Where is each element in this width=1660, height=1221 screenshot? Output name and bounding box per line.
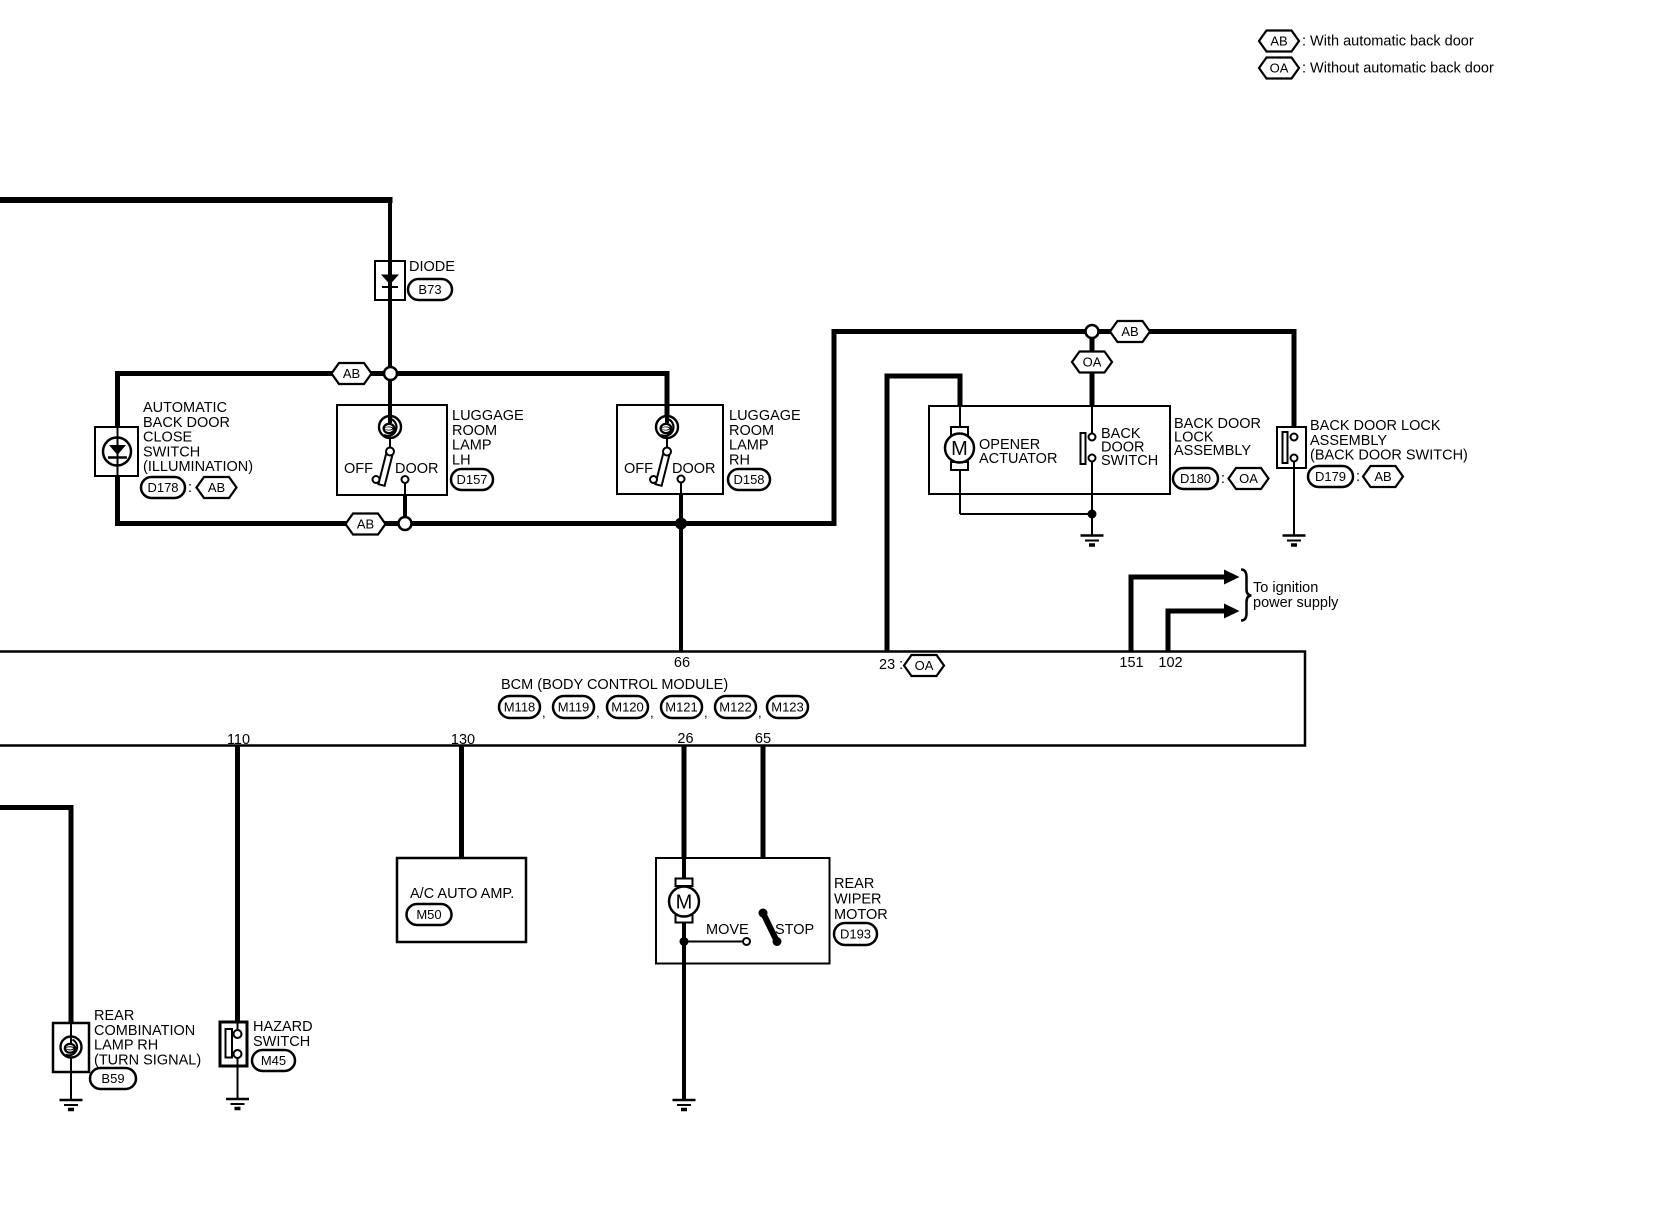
svg-text:LAMP: LAMP <box>729 438 769 454</box>
svg-text::: : <box>188 480 192 496</box>
svg-text:BACK DOOR: BACK DOOR <box>143 415 230 431</box>
brace to ignition power supply <box>1241 570 1252 621</box>
opener internal wires <box>960 406 1092 536</box>
svg-text:OFF: OFF <box>344 461 373 477</box>
svg-text:REAR: REAR <box>834 876 874 892</box>
D178 internal wire <box>117 427 119 476</box>
svg-text:66: 66 <box>674 655 690 671</box>
svg-text:110: 110 <box>227 732 250 748</box>
svg-text:STOP: STOP <box>775 922 814 938</box>
svg-text:ASSEMBLY: ASSEMBLY <box>1310 433 1387 449</box>
bulb lamp LH <box>379 416 401 438</box>
AB hexagon on bottom loop <box>346 514 386 535</box>
svg-text:M: M <box>951 438 968 460</box>
wire: top feed horizontal <box>0 197 393 203</box>
wire: upper loop horizontal with corner down to lamp RH <box>115 374 667 418</box>
wire: wiper ground stem <box>682 942 686 1101</box>
BCM box <box>0 652 1305 746</box>
label LUGGAGE ROOM LAMP LH <box>452 408 524 468</box>
D178 AB hexagon <box>197 477 237 498</box>
wire: right riser up and across to D179 <box>834 332 1297 527</box>
move contact <box>743 938 750 945</box>
wire: D179 drop <box>1292 329 1297 427</box>
contact OFF RH <box>650 476 657 483</box>
diode box B73 <box>375 261 405 300</box>
svg-text:DOOR: DOOR <box>672 461 716 477</box>
svg-text:(ILLUMINATION): (ILLUMINATION) <box>143 459 253 475</box>
label BACK DOOR LOCK ASSEMBLY (BACK DOOR SWITCH) <box>1310 418 1468 464</box>
svg-text:HAZARD: HAZARD <box>253 1019 313 1035</box>
svg-text:D157: D157 <box>456 472 487 487</box>
svg-text:DOOR: DOOR <box>395 461 439 477</box>
svg-text:LUGGAGE: LUGGAGE <box>452 408 524 424</box>
svg-text:BCM (BODY CONTROL MODULE): BCM (BODY CONTROL MODULE) <box>501 677 728 693</box>
back door lock assembly switch box D179 <box>1277 427 1306 468</box>
contact OFF LH <box>373 476 380 483</box>
junction circle on bottom loop <box>399 517 412 530</box>
svg-text:REAR: REAR <box>94 1008 134 1024</box>
svg-text:ASSEMBLY: ASSEMBLY <box>1174 443 1251 459</box>
wire: OA branch down to opener box <box>1090 332 1095 407</box>
D180 OA hexagon <box>1229 468 1269 489</box>
svg-text:M119: M119 <box>558 700 590 715</box>
svg-text:M121: M121 <box>665 700 698 715</box>
svg-text:OFF: OFF <box>624 461 653 477</box>
OA hexagon on opener branch <box>1072 352 1112 373</box>
svg-text:WIPER: WIPER <box>834 891 882 907</box>
wire: bottom loop horizontal <box>115 521 837 526</box>
svg-text:151: 151 <box>1119 655 1143 671</box>
label BACK DOOR LOCK ASSEMBLY (D180) <box>1174 416 1261 459</box>
D179 internals <box>1283 432 1298 536</box>
rear combination lamp box B59 <box>53 1023 89 1072</box>
wire: left turn signal feed <box>0 808 71 1024</box>
legend AB hexagon <box>1259 31 1299 52</box>
wire: left loop vertical through D178 <box>115 371 120 526</box>
diode symbol <box>381 275 399 288</box>
wire: BCM pin 23 riser and motor feed <box>887 376 960 652</box>
connectors M118-M123 <box>499 696 808 720</box>
switch pivot RH <box>663 448 671 456</box>
svg-text:RH: RH <box>729 452 750 468</box>
B59 internal wire <box>70 1023 72 1100</box>
svg-text:(BACK DOOR SWITCH): (BACK DOOR SWITCH) <box>1310 448 1468 464</box>
svg-text:AB: AB <box>357 517 374 532</box>
svg-text:,: , <box>758 705 762 720</box>
svg-text:B73: B73 <box>418 282 441 297</box>
svg-text:,: , <box>650 705 654 720</box>
svg-text:,: , <box>596 705 600 720</box>
junction on upper loop <box>384 367 397 380</box>
svg-text:M120: M120 <box>611 700 644 715</box>
D178 LED symbol <box>103 438 131 466</box>
svg-text:M45: M45 <box>261 1053 286 1068</box>
svg-text:AB: AB <box>208 480 225 495</box>
automatic back door close switch box D178 <box>95 427 138 476</box>
wire: wiper motor to ground junction <box>682 922 686 946</box>
ground: opener actuator <box>1081 536 1104 546</box>
connector D178 <box>141 477 192 498</box>
connector M45 <box>252 1050 295 1071</box>
pin 23 label and OA hexagon <box>879 655 944 676</box>
label AUTOMATIC BACK DOOR CLOSE SWITCH (ILLUMINATION) <box>143 400 253 475</box>
ground: rear combination lamp <box>60 1100 83 1110</box>
switch pivot LH <box>386 448 394 456</box>
svg-text:power supply: power supply <box>1253 595 1339 611</box>
svg-text:D179: D179 <box>1315 469 1346 484</box>
svg-text:65: 65 <box>755 731 771 747</box>
D179 AB hexagon <box>1363 466 1403 487</box>
svg-text:ROOM: ROOM <box>729 423 774 439</box>
svg-text:SWITCH: SWITCH <box>253 1034 310 1050</box>
wire: lamp LH DOOR stem <box>404 483 406 496</box>
svg-text:A/C AUTO AMP.: A/C AUTO AMP. <box>410 886 514 902</box>
svg-text:M50: M50 <box>416 907 441 922</box>
hazard switch box M45 <box>220 1022 247 1066</box>
connector D179 <box>1308 466 1360 487</box>
wire: pin 102 to ignition arrow <box>1168 611 1226 652</box>
arrowhead lower ignition <box>1224 604 1240 619</box>
contact DOOR LH <box>402 476 409 483</box>
label LUGGAGE ROOM LAMP RH <box>729 408 801 468</box>
connector B59 <box>90 1068 136 1089</box>
ground: rear wiper motor <box>673 1100 696 1110</box>
wire: pin 151 to ignition arrow <box>1131 577 1226 652</box>
junction dot lamp RH to BCM <box>675 518 687 530</box>
arrowhead upper ignition <box>1224 570 1240 585</box>
svg-text:D180: D180 <box>1180 471 1211 486</box>
hazard internals <box>226 1022 242 1099</box>
label To ignition power supply <box>1253 580 1339 611</box>
svg-text:LAMP RH: LAMP RH <box>94 1038 158 1054</box>
wire: pin 130 to A/C amp <box>459 746 464 858</box>
svg-text:LH: LH <box>452 452 471 468</box>
svg-text:D193: D193 <box>840 927 871 942</box>
svg-text:CLOSE: CLOSE <box>143 430 192 446</box>
svg-text:M: M <box>676 892 693 914</box>
wire: move contact line <box>684 941 743 943</box>
contact DOOR RH <box>678 476 685 483</box>
svg-text:,: , <box>704 705 708 720</box>
svg-text:OA: OA <box>1083 355 1102 370</box>
opener actuator box D180 <box>929 406 1170 494</box>
svg-text:ROOM: ROOM <box>452 423 497 439</box>
connector D193 <box>834 923 877 945</box>
connector D158 <box>728 469 770 490</box>
label REAR WIPER MOTOR <box>834 876 888 923</box>
AB hexagon top right <box>1110 321 1150 342</box>
connector D180 <box>1173 468 1225 489</box>
back door switch in opener box <box>1081 433 1096 464</box>
wire: RH bulb to switch pivot <box>666 438 668 448</box>
wire: pin 65 to wiper stop lever <box>761 746 766 909</box>
svg-text:102: 102 <box>1158 655 1182 671</box>
label BACK DOOR SWITCH <box>1101 426 1158 469</box>
A/C auto amp box M50 <box>397 858 526 942</box>
lamp LH internals <box>344 416 439 486</box>
svg-text:130: 130 <box>451 732 475 748</box>
wire: LH bulb to switch pivot <box>389 438 391 448</box>
label REAR COMBINATION LAMP RH (TURN SIGNAL) <box>94 1008 201 1068</box>
svg-text:AB: AB <box>1270 34 1287 49</box>
connector M50 <box>407 904 452 925</box>
lamp LH box D157 <box>337 405 447 495</box>
svg-text:M118: M118 <box>504 700 536 715</box>
lamp RH internals <box>624 416 716 486</box>
svg-text:SWITCH: SWITCH <box>1101 453 1158 469</box>
wire: pin 110 to hazard switch <box>235 746 240 1022</box>
svg-text:D178: D178 <box>147 480 178 495</box>
svg-text:B59: B59 <box>101 1071 124 1086</box>
wire: junction down to lamp LH bulb <box>388 374 392 418</box>
opener actuator motor M <box>945 427 974 470</box>
svg-text:AUTOMATIC: AUTOMATIC <box>143 400 227 416</box>
switch lever RH <box>655 451 670 486</box>
svg-text:OA: OA <box>915 658 934 673</box>
junction dot opener ground <box>1088 510 1097 519</box>
rear wiper motor box D193 <box>656 858 830 964</box>
svg-text:COMBINATION: COMBINATION <box>94 1023 195 1039</box>
junction on right riser wire <box>1086 325 1099 338</box>
svg-text::: : <box>1221 471 1225 487</box>
svg-text:LAMP: LAMP <box>452 438 492 454</box>
svg-text:BACK DOOR LOCK: BACK DOOR LOCK <box>1310 418 1441 434</box>
svg-text:SWITCH: SWITCH <box>143 444 200 460</box>
wire: top feed vertical through diode to junction <box>388 198 392 374</box>
svg-text:MOTOR: MOTOR <box>834 907 888 923</box>
B59 bulb <box>61 1037 82 1058</box>
connector D157 <box>451 469 493 490</box>
wire: pin 26 to wiper motor <box>682 746 687 877</box>
svg-text:: With automatic back door: : With automatic back door <box>1302 34 1474 50</box>
bulb lamp RH <box>656 416 678 438</box>
svg-text:,: , <box>542 705 546 720</box>
svg-text:AB: AB <box>1121 324 1138 339</box>
svg-text:MOVE: MOVE <box>706 922 749 938</box>
svg-text:To ignition: To ignition <box>1253 580 1318 596</box>
svg-text:23 :: 23 : <box>879 657 903 673</box>
svg-text:(TURN SIGNAL): (TURN SIGNAL) <box>94 1052 201 1068</box>
svg-text:M123: M123 <box>771 700 804 715</box>
ground: back door lock assembly <box>1283 536 1306 546</box>
label OPENER ACTUATOR <box>979 437 1057 467</box>
svg-text:26: 26 <box>677 731 693 747</box>
svg-text:: Without automatic back door: : Without automatic back door <box>1302 61 1494 77</box>
svg-text:OA: OA <box>1270 61 1289 76</box>
wiper motor M <box>669 858 699 923</box>
stop lever <box>759 909 782 947</box>
ground: hazard switch <box>226 1099 249 1109</box>
label HAZARD SWITCH <box>253 1019 313 1050</box>
svg-text:AB: AB <box>1374 469 1391 484</box>
svg-text:ACTUATOR: ACTUATOR <box>979 451 1057 467</box>
svg-text:M122: M122 <box>719 700 752 715</box>
switch lever LH <box>378 451 393 486</box>
junction dot wiper ground <box>680 937 689 946</box>
AB hexagon on upper loop <box>332 363 372 384</box>
svg-text:LUGGAGE: LUGGAGE <box>729 408 801 424</box>
svg-text::: : <box>1356 469 1360 485</box>
wire: lamp RH DOOR stem to BCM pin 66 <box>680 482 682 496</box>
svg-text:DIODE: DIODE <box>409 259 455 275</box>
lamp RH box D158 <box>617 405 723 494</box>
connector B73 <box>408 279 452 300</box>
svg-text:OA: OA <box>1239 471 1258 486</box>
svg-text:D158: D158 <box>733 472 764 487</box>
legend OA hexagon <box>1259 58 1299 79</box>
svg-text:AB: AB <box>343 366 360 381</box>
